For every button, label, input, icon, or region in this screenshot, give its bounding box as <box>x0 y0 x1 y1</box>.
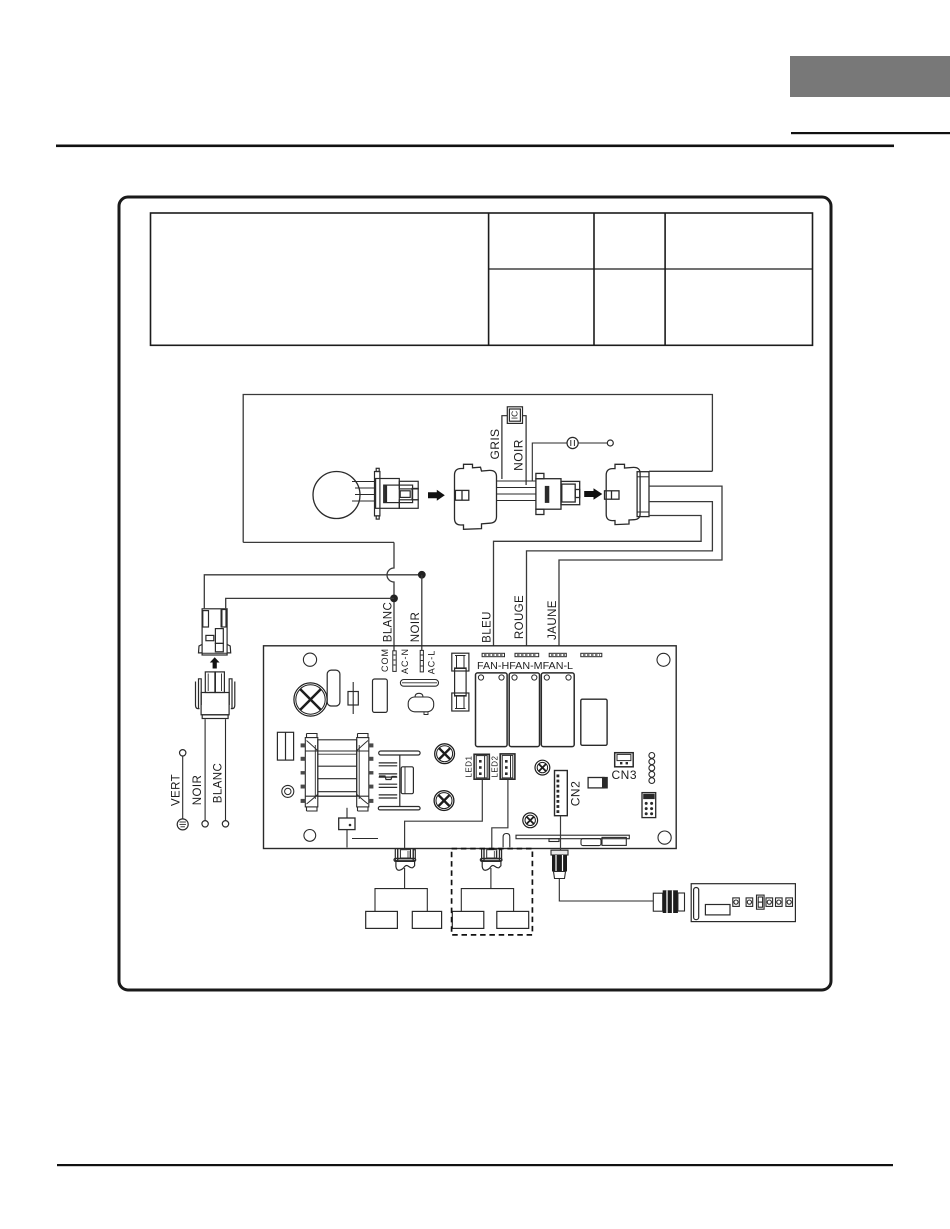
terminal lug B2a <box>452 911 484 928</box>
relay K3 <box>541 673 574 747</box>
wire LED1 to plug <box>405 780 483 849</box>
screw M2 <box>434 791 454 811</box>
svg-text:AC-L: AC-L <box>426 650 436 675</box>
arrow up <box>210 657 220 668</box>
wire horizontal upper to AC-L <box>204 575 421 609</box>
svg-text:LED2: LED2 <box>491 755 500 777</box>
LED2 connector <box>500 754 515 779</box>
svg-text:GRIS: GRIS <box>488 429 502 460</box>
header short rule under banner <box>791 132 950 134</box>
transistor Q1 with lead <box>346 808 348 818</box>
TO-220 package <box>401 767 413 794</box>
wire from H2 to box edge <box>649 470 712 472</box>
PCB mounting hole TR <box>657 653 670 666</box>
relay pads row <box>482 653 602 656</box>
wire BLANC vertical with hop <box>387 542 394 650</box>
vertical cap left <box>327 670 340 706</box>
inner assembly box (open outline) <box>243 395 712 543</box>
svg-text:AC-N: AC-N <box>400 648 410 674</box>
jumper block <box>642 793 656 818</box>
svg-text:NOIR: NOIR <box>410 612 422 642</box>
relay K1 <box>476 673 508 747</box>
wire GRIS up to IC <box>502 416 507 479</box>
screw S4 <box>535 760 550 775</box>
motor circle <box>313 472 360 519</box>
connector plug P2 <box>536 473 580 514</box>
CN3 connector <box>615 753 634 767</box>
PCB mounting hole BL <box>304 830 316 842</box>
terminal split B1 <box>375 889 427 912</box>
screw S5 <box>523 813 538 828</box>
svg-text:COM: COM <box>380 648 390 672</box>
capacitor block <box>581 699 607 745</box>
wire terminal to ring <box>578 442 607 444</box>
wire CN2 down <box>560 816 562 850</box>
left connector C2 <box>196 672 235 719</box>
wire to display <box>559 879 653 902</box>
wire BLANC down <box>225 719 227 820</box>
display board <box>691 884 795 922</box>
plug P2 latch bar <box>545 486 550 503</box>
transformer pins <box>301 743 374 803</box>
wire junction dot AC-L <box>418 571 426 579</box>
outer diagram frame <box>119 197 831 990</box>
axial resistor <box>352 682 354 714</box>
PCB mounting hole BR <box>658 831 671 844</box>
C1 latch bar <box>221 610 223 628</box>
bottom plug B1 <box>394 849 416 871</box>
wire BLEU routing <box>494 516 702 646</box>
PCB mounting hole TL <box>303 653 316 666</box>
terminal split B2 <box>461 889 513 912</box>
terminal lug B2b <box>497 911 529 928</box>
fuse F1 <box>452 653 469 711</box>
CN2 connector <box>555 771 568 816</box>
footer rule <box>57 1164 893 1166</box>
wire VERT <box>180 750 186 756</box>
small ring <box>282 785 294 797</box>
svg-text:FAN-HFAN-MFAN-L: FAN-HFAN-MFAN-L <box>477 660 573 672</box>
slot <box>503 834 510 848</box>
screw boss big <box>294 683 327 716</box>
svg-text:CN2: CN2 <box>569 781 583 807</box>
display plug P4 <box>653 890 684 913</box>
open ring terminal <box>607 440 613 446</box>
wire JAUNE routing <box>559 486 722 646</box>
svg-text:BLANC: BLANC <box>212 763 224 803</box>
display cable plug B3 <box>551 850 568 878</box>
transformer T1 <box>305 734 369 812</box>
svg-text:IC: IC <box>509 411 519 420</box>
capacitor terminal symbol <box>567 437 578 448</box>
varistor <box>408 693 434 714</box>
display buttons <box>733 898 793 907</box>
svg-text:BLEU: BLEU <box>482 611 494 643</box>
connector plug P1 (motor lead) <box>375 468 419 519</box>
wire junction dot AC-N <box>390 595 398 603</box>
dashed option box <box>452 849 533 935</box>
IC thermal protector box <box>507 407 522 424</box>
terminal lug B1a <box>366 911 398 928</box>
terminal circle NOIR <box>202 821 208 827</box>
arrow 1 <box>428 490 445 501</box>
wire NOIR vertical to PCB <box>421 575 423 651</box>
header gray banner <box>790 56 950 97</box>
wire NOIR up to IC <box>523 416 527 485</box>
svg-text:VERT: VERT <box>171 774 183 806</box>
screw M1 <box>435 744 455 764</box>
header long rule <box>56 145 894 148</box>
terminal pad COM <box>393 651 396 672</box>
wire LED2 to plug <box>492 780 508 849</box>
heatsink <box>378 751 420 810</box>
component left edge <box>277 732 293 760</box>
svg-text:LED1: LED1 <box>465 755 474 777</box>
pin hole column <box>649 753 655 784</box>
wire horizontal lower to AC-N <box>226 598 394 608</box>
svg-text:NOIR: NOIR <box>192 775 204 805</box>
cap component C10 <box>400 680 438 687</box>
connector housing H1 <box>455 464 497 529</box>
bottom plug B2 <box>480 849 502 871</box>
display switch <box>757 895 765 909</box>
terminal pad AC-L <box>420 650 423 672</box>
arrow 2 <box>584 488 602 499</box>
vertical cap mid <box>373 679 388 712</box>
ground terminal VERT <box>177 819 188 830</box>
wires H1 to P2 <box>497 481 536 501</box>
parts table <box>151 213 813 345</box>
terminal lug B1b <box>412 911 441 928</box>
svg-text:ROUGE: ROUGE <box>514 595 526 639</box>
relay K2 <box>509 673 539 747</box>
terminal circle BLANC <box>222 821 228 827</box>
bottom edge bar <box>516 835 629 845</box>
PCB board outline <box>264 646 677 849</box>
electrolytic capacitor <box>588 778 604 788</box>
left connector C1 <box>199 609 231 655</box>
svg-text:BLANC: BLANC <box>383 602 395 642</box>
svg-text:NOIR: NOIR <box>512 439 526 471</box>
LED1 connector <box>474 754 489 779</box>
wires motor to plug <box>352 482 376 502</box>
wire ROUGE routing <box>527 502 713 646</box>
plug P1 latch bar <box>384 485 387 503</box>
wire to capacitor terminal <box>532 443 567 481</box>
svg-text:CN3: CN3 <box>612 768 638 782</box>
wire NOIR down <box>204 719 206 820</box>
connector housing H2 <box>605 464 650 524</box>
svg-text:JAUNE: JAUNE <box>547 600 559 640</box>
